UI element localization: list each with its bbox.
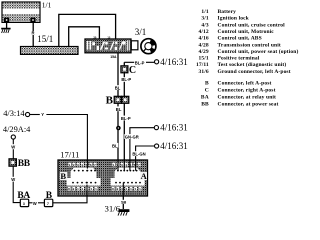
svg-text:R: R bbox=[32, 31, 35, 36]
svg-text:BL-GN: BL-GN bbox=[132, 152, 145, 157]
svg-text:4/16:31: 4/16:31 bbox=[160, 123, 188, 133]
svg-text:1/1: 1/1 bbox=[201, 9, 209, 15]
svg-text:B: B bbox=[60, 171, 66, 181]
label BL (above connector B) bbox=[114, 85, 121, 90]
pin numbers, connector A of 17/11 bbox=[112, 163, 115, 167]
svg-text:3/1: 3/1 bbox=[135, 27, 147, 37]
svg-text:BL-P: BL-P bbox=[121, 77, 131, 82]
wire ignition terminal 15 down (BL) bbox=[117, 53, 119, 160]
svg-text:4/29A:4: 4/29A:4 bbox=[3, 125, 31, 134]
svg-text:Connector, at relay unit: Connector, at relay unit bbox=[218, 95, 277, 101]
connector BB bbox=[9, 159, 16, 166]
svg-text:SB: SB bbox=[121, 201, 127, 205]
svg-text:C: C bbox=[205, 88, 209, 94]
svg-text:17/11: 17/11 bbox=[196, 62, 209, 68]
svg-text:W: W bbox=[11, 145, 15, 150]
svg-text:Connector, right A-post: Connector, right A-post bbox=[218, 88, 276, 94]
connector C bbox=[121, 66, 128, 73]
wire battery to fuse box, R bbox=[32, 23, 34, 47]
svg-text:B: B bbox=[205, 81, 209, 87]
svg-text:4/3:14: 4/3:14 bbox=[3, 109, 25, 118]
wire fuse box to ignition lock (inner loop, terminal X) bbox=[69, 27, 100, 47]
svg-text:Transmission control unit: Transmission control unit bbox=[218, 42, 281, 48]
svg-text:Control unit, ABS: Control unit, ABS bbox=[218, 36, 262, 42]
off-page connector 4/16:31 (middle) bbox=[154, 126, 158, 130]
wire W below BB bbox=[13, 166, 20, 202]
label BL (below connector B) bbox=[115, 106, 122, 111]
svg-text:BB: BB bbox=[18, 159, 31, 169]
svg-text:4/16: 4/16 bbox=[199, 36, 209, 42]
wire stubs inside bbox=[86, 160, 88, 169]
svg-text:4/3: 4/3 bbox=[201, 22, 209, 28]
svg-text:Control unit, Motronic: Control unit, Motronic bbox=[218, 29, 275, 35]
battery 1/1 bbox=[2, 2, 40, 23]
legend bbox=[196, 9, 298, 107]
svg-text:4/28: 4/28 bbox=[199, 42, 209, 48]
svg-text:C: C bbox=[129, 65, 136, 76]
svg-text:17/11: 17/11 bbox=[60, 150, 79, 160]
junction splice on BL wire bbox=[116, 126, 121, 131]
svg-text:B: B bbox=[106, 94, 114, 106]
svg-text:1/1: 1/1 bbox=[42, 1, 52, 10]
svg-text:4/16:31: 4/16:31 bbox=[160, 141, 188, 151]
ground (battery) bbox=[1, 29, 10, 33]
wire battery left terminal to ground bbox=[6, 23, 8, 28]
label BL-P (below connector B) bbox=[121, 116, 132, 121]
svg-text:W: W bbox=[11, 177, 15, 182]
label BL-P (below C) bbox=[121, 77, 132, 82]
svg-text:15A: 15A bbox=[110, 55, 117, 59]
svg-text:3/1: 3/1 bbox=[201, 16, 209, 22]
svg-text:A: A bbox=[141, 171, 148, 181]
svg-text:BL-P: BL-P bbox=[135, 60, 145, 65]
off-page connector 4/16:31 (top) bbox=[155, 60, 159, 64]
pin numbers, connector B of 17/11 bbox=[68, 163, 71, 167]
svg-text:Connector, left A-post: Connector, left A-post bbox=[218, 81, 272, 87]
svg-text:31/6: 31/6 bbox=[105, 203, 121, 213]
svg-text:4/29: 4/29 bbox=[199, 49, 209, 55]
svg-text:GN-GR: GN-GR bbox=[125, 135, 139, 140]
B and A labels bbox=[60, 172, 68, 180]
svg-text:Connector, at power seat: Connector, at power seat bbox=[218, 101, 279, 107]
wire fuse box to ignition lock (outer loop, terminal 30) bbox=[59, 14, 116, 46]
wire SB to ground bbox=[122, 196, 124, 209]
svg-text:Test socket (diagnostic unit): Test socket (diagnostic unit) bbox=[218, 61, 287, 68]
svg-text:BL: BL bbox=[112, 143, 118, 148]
label BL (above control unit) bbox=[111, 143, 118, 148]
svg-text:Positive terminal: Positive terminal bbox=[218, 56, 260, 62]
right connector cutout bbox=[111, 168, 145, 186]
connector B (bottom) bbox=[44, 199, 52, 206]
svg-text:Ground connector, left A-post: Ground connector, left A-post bbox=[218, 69, 291, 75]
pin label 15A bbox=[110, 55, 117, 59]
ground 31/6 bbox=[118, 211, 129, 216]
label BL-P bbox=[134, 60, 146, 65]
off-page connector 4/16:31 (lower) bbox=[155, 144, 159, 148]
svg-text:Control unit, cruise control: Control unit, cruise control bbox=[218, 22, 286, 28]
svg-text:31/6: 31/6 bbox=[199, 69, 209, 75]
left connector cutout bbox=[67, 168, 101, 186]
connector B (two halves) bbox=[114, 96, 129, 103]
label GN-GR bbox=[124, 134, 141, 139]
svg-text:15/1: 15/1 bbox=[199, 56, 209, 62]
svg-text:BB: BB bbox=[201, 101, 209, 107]
wire GN-GR to connector 4/16:31 (middle) bbox=[130, 128, 154, 160]
svg-text:Y: Y bbox=[41, 112, 44, 117]
label BL-GN bbox=[132, 151, 148, 156]
ignition key symbol bbox=[141, 39, 156, 54]
wire W between BA and B bbox=[29, 202, 45, 204]
fuse box 15/1 bbox=[21, 47, 79, 55]
svg-text:Battery: Battery bbox=[218, 9, 237, 15]
svg-text:Ignition lock: Ignition lock bbox=[218, 16, 250, 22]
svg-text:4/16:31: 4/16:31 bbox=[160, 57, 188, 67]
svg-text:15/1: 15/1 bbox=[37, 34, 53, 44]
svg-text:3: 3 bbox=[23, 202, 25, 206]
wire from connector B to control unit bbox=[53, 196, 87, 203]
svg-text:W: W bbox=[33, 201, 37, 206]
wire BL-P branch to connector 4/16:31 (top) bbox=[124, 61, 154, 63]
svg-text:Control unit, power seat (opti: Control unit, power seat (option) bbox=[218, 48, 299, 55]
ignition key cylinder tab bbox=[131, 41, 138, 50]
svg-text:7: 7 bbox=[47, 202, 49, 206]
wire BL-GN to connector 4/16:31 (lower) bbox=[136, 146, 155, 160]
svg-text:BL: BL bbox=[115, 85, 121, 90]
svg-text:BL-P: BL-P bbox=[121, 116, 131, 121]
connector BA bbox=[20, 199, 28, 206]
ignition lock 3/1 bbox=[85, 39, 131, 53]
svg-text:BA: BA bbox=[201, 95, 209, 101]
svg-text:BL: BL bbox=[116, 107, 122, 112]
svg-text:4/12: 4/12 bbox=[199, 29, 209, 35]
